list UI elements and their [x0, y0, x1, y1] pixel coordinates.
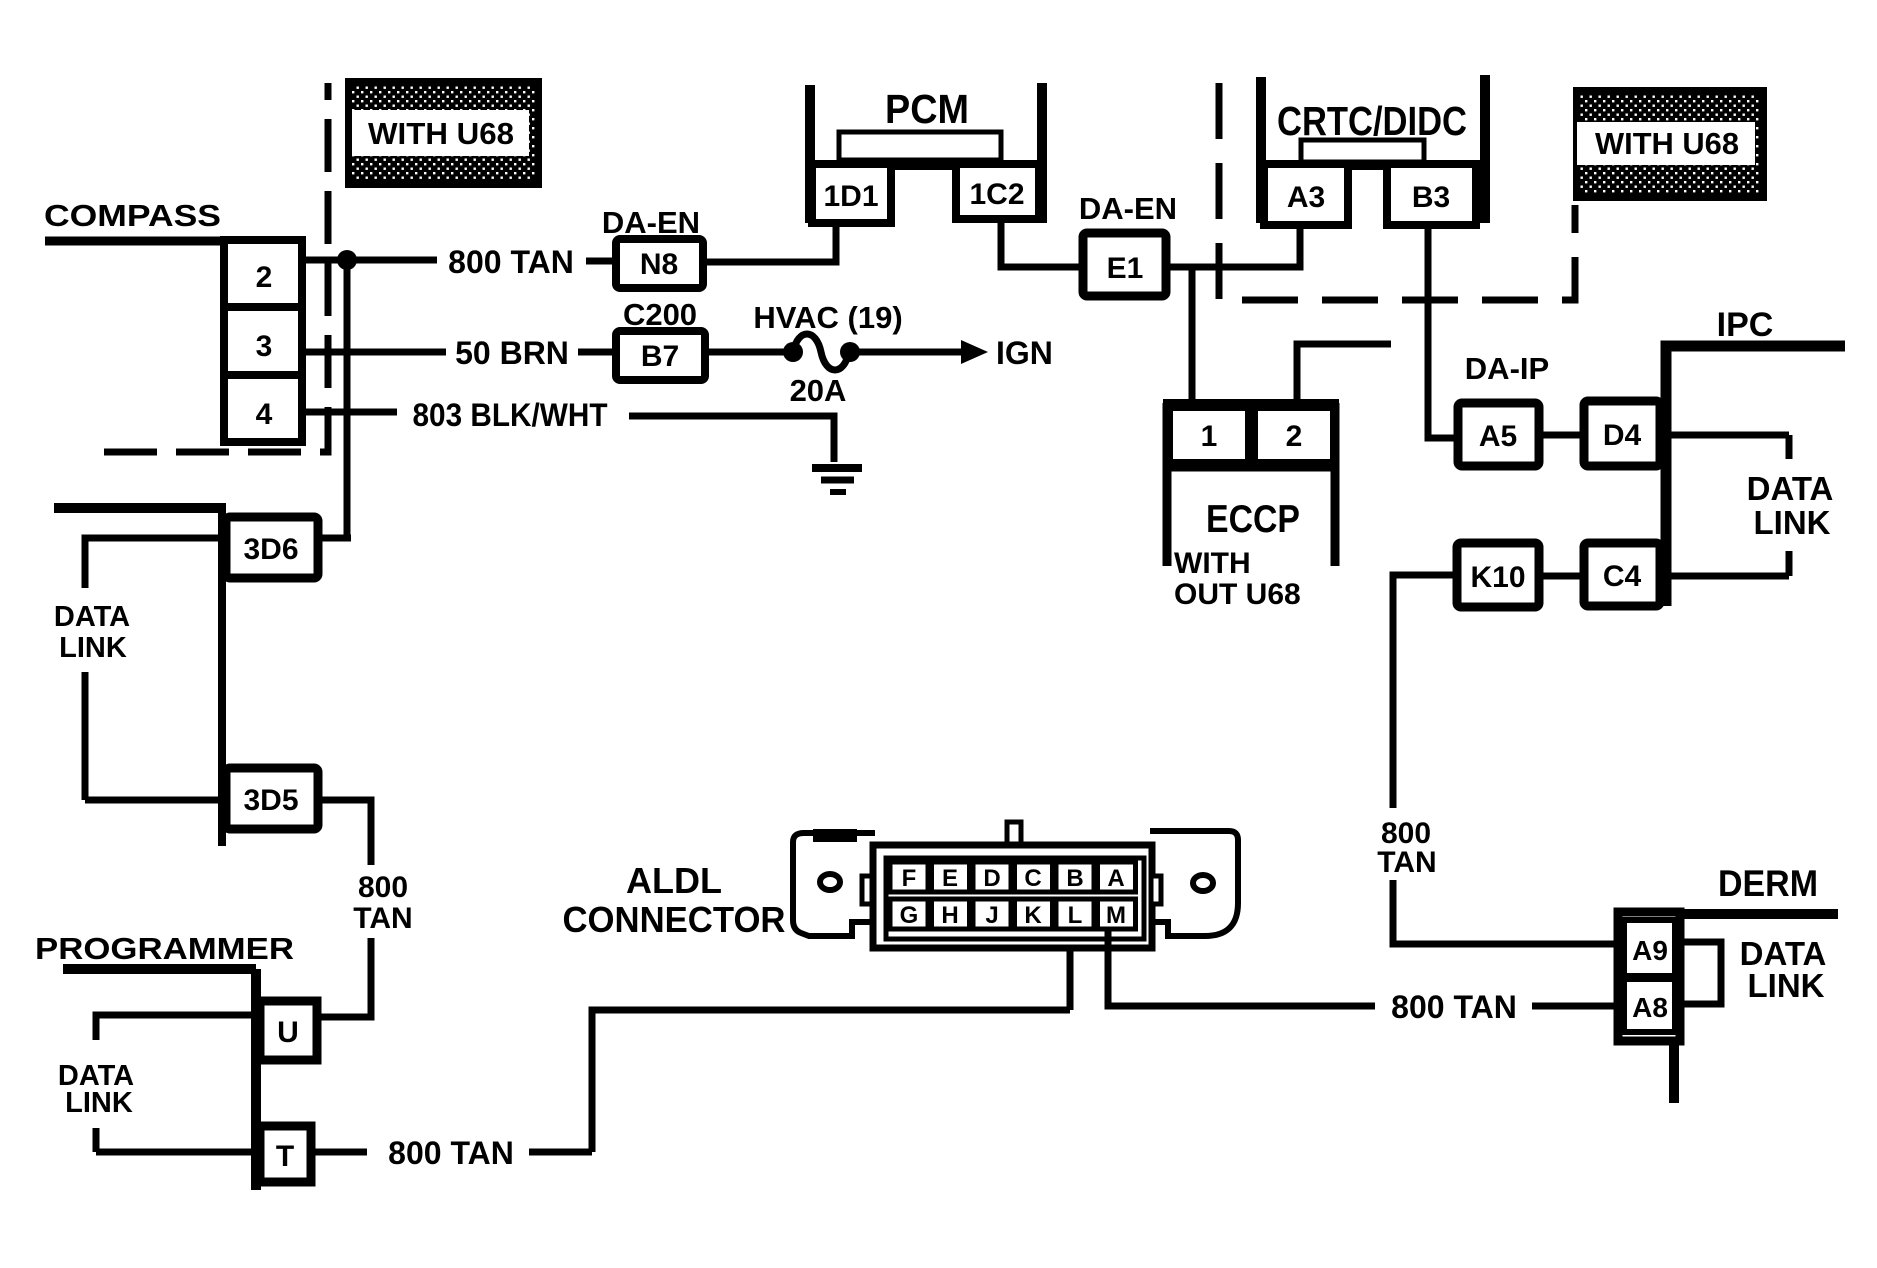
svg-text:1D1: 1D1 — [823, 180, 878, 213]
connector K10 — [1457, 543, 1539, 607]
DERM connector A9/A8 — [1618, 912, 1680, 1041]
svg-text:A9: A9 — [1632, 935, 1668, 966]
CRTC terminal B3 — [1387, 164, 1476, 225]
svg-text:TAN: TAN — [1377, 846, 1436, 879]
svg-text:DA-EN: DA-EN — [1079, 191, 1177, 226]
svg-text:DATA: DATA — [1747, 470, 1834, 507]
svg-text:G: G — [900, 902, 919, 929]
ECCP pin 2 stub wire — [1297, 344, 1391, 403]
CRTC/DIDC label — [1277, 98, 1467, 144]
COMPASS connector pins 2/3/4 — [224, 240, 302, 442]
label 800 TAN (compass) — [448, 244, 574, 280]
wire K10 to A9 (800 TAN) — [1393, 575, 1621, 944]
connector D4 — [1584, 401, 1660, 466]
svg-text:DERM: DERM — [1718, 863, 1818, 904]
svg-text:CONNECTOR: CONNECTOR — [563, 899, 786, 940]
svg-text:IPC: IPC — [1717, 306, 1774, 344]
svg-text:K: K — [1024, 902, 1042, 929]
junction dot — [337, 250, 357, 270]
svg-text:M: M — [1106, 902, 1126, 929]
svg-text:1: 1 — [1201, 420, 1218, 453]
DATA LINK bracket (3D6/3D5) — [85, 538, 224, 800]
svg-text:WITH U68: WITH U68 — [1595, 126, 1739, 161]
ECCP label — [1206, 498, 1300, 541]
DATA LINK label (left) — [54, 601, 130, 664]
svg-text:DA-EN: DA-EN — [602, 205, 700, 240]
DERM bus — [1676, 909, 1838, 919]
ALDL pins F E D C B A — [890, 862, 1136, 892]
label 803 BLK/WHT — [413, 397, 608, 433]
ECCP connector pins 1/2 — [1163, 403, 1339, 566]
svg-text:3D6: 3D6 — [243, 533, 298, 566]
svg-text:B3: B3 — [1412, 181, 1450, 214]
svg-text:LINK: LINK — [1754, 504, 1831, 541]
svg-text:4: 4 — [256, 398, 273, 431]
svg-text:T: T — [276, 1140, 294, 1173]
svg-text:U: U — [277, 1016, 299, 1049]
wire E1 to A3 — [1166, 226, 1300, 267]
IPC bus — [1666, 346, 1845, 606]
wire D4 to data link bracket — [1660, 432, 1789, 439]
svg-text:N8: N8 — [640, 248, 678, 281]
label 50 BRN — [455, 335, 569, 371]
connector N8 — [616, 239, 703, 288]
PCM body bracket left — [805, 85, 815, 223]
svg-text:CRTC/DIDC: CRTC/DIDC — [1277, 98, 1467, 144]
wire junction down to 3D6 — [344, 260, 351, 538]
ALDL CONNECTOR label — [563, 860, 786, 940]
dashed boundary (left, WITH U68 zone) — [104, 83, 328, 452]
wire 3D6 to junction vertical — [318, 535, 351, 542]
svg-text:L: L — [1068, 902, 1083, 929]
wire 800 TAN (compass pin 2 to N8) — [302, 260, 616, 261]
DERM label — [1718, 863, 1818, 904]
svg-text:COMPASS: COMPASS — [44, 198, 221, 233]
svg-text:E: E — [942, 865, 958, 892]
svg-text:20A: 20A — [790, 373, 847, 408]
connector U — [260, 1001, 317, 1060]
DATA LINK bracket (DERM) — [1680, 942, 1721, 1004]
svg-text:800: 800 — [358, 871, 408, 904]
PCM label — [885, 86, 969, 132]
svg-text:LINK: LINK — [59, 632, 127, 664]
wire 50 BRN (compass pin 3 to B7) — [302, 349, 616, 356]
DATA LINK bracket (IPC) — [1671, 435, 1789, 576]
connector 3D6 — [226, 517, 318, 578]
svg-text:WITH U68: WITH U68 — [368, 116, 514, 151]
svg-text:800 TAN: 800 TAN — [448, 244, 574, 280]
label 800 TAN (T) — [388, 1135, 514, 1171]
label HVAC (19) — [753, 300, 902, 335]
CRTC terminal A3 — [1264, 164, 1348, 225]
svg-text:K10: K10 — [1470, 561, 1525, 594]
svg-text:DA-IP: DA-IP — [1465, 351, 1549, 386]
svg-text:D4: D4 — [1603, 419, 1642, 452]
PCM body bracket right — [1037, 83, 1047, 223]
svg-text:A5: A5 — [1479, 420, 1517, 453]
DATA LINK label (DERM) — [1740, 935, 1827, 1004]
label 800 TAN (K10-A9) — [1377, 817, 1436, 879]
dashed boundary (center) — [1219, 83, 1575, 300]
svg-text:3: 3 — [256, 330, 273, 363]
PCM base bar — [806, 160, 1047, 170]
svg-text:LINK: LINK — [65, 1087, 133, 1119]
label IGN — [996, 335, 1053, 371]
svg-text:1C2: 1C2 — [969, 178, 1024, 211]
svg-text:C: C — [1024, 865, 1041, 892]
svg-text:HVAC (19): HVAC (19) — [753, 300, 902, 335]
svg-text:D: D — [983, 865, 1000, 892]
label DA-EN (N8) — [602, 205, 700, 240]
WITH U68 flag (right) — [1573, 87, 1767, 201]
svg-text:B7: B7 — [641, 340, 679, 373]
PROGRAMMER label — [35, 931, 294, 966]
DATA LINK label (programmer) — [58, 1060, 134, 1119]
COMPASS label — [44, 198, 221, 233]
svg-text:J: J — [985, 902, 998, 929]
IPC label — [1717, 306, 1774, 344]
svg-text:2: 2 — [1286, 420, 1303, 453]
svg-text:H: H — [941, 902, 958, 929]
svg-text:A8: A8 — [1632, 992, 1668, 1023]
svg-text:803 BLK/WHT: 803 BLK/WHT — [413, 397, 608, 433]
svg-text:50 BRN: 50 BRN — [455, 335, 569, 371]
wire N8 to PCM 1D1 — [703, 226, 836, 262]
svg-text:TAN: TAN — [353, 902, 412, 935]
svg-text:IGN: IGN — [996, 335, 1053, 371]
connector C4 — [1584, 543, 1660, 606]
svg-text:PCM: PCM — [885, 86, 969, 132]
DATA LINK bracket (programmer) — [96, 1015, 260, 1152]
fuse HVAC 20A — [705, 334, 860, 370]
svg-text:A: A — [1107, 865, 1124, 892]
svg-text:800 TAN: 800 TAN — [1391, 989, 1517, 1025]
CRTC body bracket left — [1256, 77, 1266, 223]
CRTC body bracket right — [1480, 75, 1490, 223]
connector T — [260, 1126, 311, 1182]
DATA LINK label (IPC) — [1747, 470, 1834, 541]
label 800 TAN (3D5-U) — [353, 871, 412, 935]
ALDL connector body — [793, 822, 1238, 948]
connector B7 — [616, 331, 705, 380]
wire A5 to D4 — [1539, 432, 1584, 439]
PCM shell — [839, 132, 1001, 160]
PCM terminal 1C2 — [956, 164, 1039, 219]
svg-text:B: B — [1066, 865, 1083, 892]
svg-text:WITH: WITH — [1174, 547, 1251, 580]
svg-text:ECCP: ECCP — [1206, 498, 1300, 541]
svg-text:2: 2 — [256, 261, 273, 294]
svg-text:ALDL: ALDL — [626, 860, 722, 901]
svg-text:OUT U68: OUT U68 — [1174, 578, 1301, 611]
ALDL pins G H J K L M — [890, 899, 1136, 929]
label WITH OUT U68 — [1174, 547, 1301, 611]
label 20A — [790, 373, 847, 408]
DERM stub below — [1669, 1041, 1679, 1103]
label DA-EN (E1) — [1079, 191, 1177, 226]
CRTC base bar — [1257, 160, 1489, 170]
wire 1C2 to E1 — [1001, 219, 1083, 267]
WITH U68 flag (left) — [345, 78, 542, 188]
CRTC shell — [1301, 140, 1424, 162]
svg-text:DATA: DATA — [54, 601, 130, 633]
data link trunk vertical — [218, 508, 226, 846]
connector 3D5 — [226, 768, 318, 829]
wire fuse to IGN arrow — [857, 340, 988, 364]
wire B3 to A5 — [1428, 225, 1458, 438]
svg-text:PROGRAMMER: PROGRAMMER — [35, 931, 294, 966]
label DA-IP — [1465, 351, 1549, 386]
wire off-page to 3D6 — [54, 503, 226, 513]
label C200 — [623, 297, 697, 332]
wire U to 800 TAN vertical — [317, 1014, 371, 1021]
svg-text:F: F — [902, 865, 917, 892]
wire COMPASS lead — [45, 237, 300, 246]
wire 3D5 to U (800 TAN) — [318, 800, 371, 1017]
PROGRAMMER bus — [63, 969, 256, 1190]
svg-text:E1: E1 — [1107, 252, 1144, 285]
svg-text:C4: C4 — [1603, 560, 1642, 593]
svg-text:LINK: LINK — [1748, 967, 1825, 1004]
wire 803 BLK/WHT (compass pin 4 to ground) — [302, 412, 834, 462]
svg-text:C200: C200 — [623, 297, 697, 332]
connector E1 — [1083, 233, 1166, 296]
ground — [812, 468, 862, 492]
label 800 TAN (M-A8) — [1391, 989, 1517, 1025]
PCM terminal 1D1 — [812, 164, 891, 223]
svg-text:800 TAN: 800 TAN — [388, 1135, 514, 1171]
svg-text:A3: A3 — [1287, 181, 1325, 214]
wire K10 to C4 — [1539, 573, 1584, 580]
wire E1 branch to ECCP pin 1 — [1189, 267, 1196, 403]
wire ALDL M to A8 (800 TAN) — [1108, 929, 1623, 1006]
svg-text:3D5: 3D5 — [243, 784, 298, 817]
wire T to ALDL L (800 TAN) — [311, 928, 1070, 1152]
connector A5 — [1458, 403, 1539, 466]
